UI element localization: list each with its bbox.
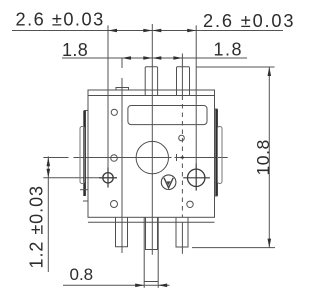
svg-text:0.8: 0.8 bbox=[70, 265, 94, 284]
svg-text:1.8: 1.8 bbox=[214, 39, 244, 59]
svg-text:1.2 ±0.03: 1.2 ±0.03 bbox=[27, 185, 47, 269]
svg-text:2.6 ±0.03: 2.6 ±0.03 bbox=[16, 10, 105, 30]
svg-text:1.8: 1.8 bbox=[62, 40, 88, 60]
svg-text:2.6 ±0.03: 2.6 ±0.03 bbox=[203, 11, 295, 31]
svg-text:10.8: 10.8 bbox=[253, 139, 273, 175]
